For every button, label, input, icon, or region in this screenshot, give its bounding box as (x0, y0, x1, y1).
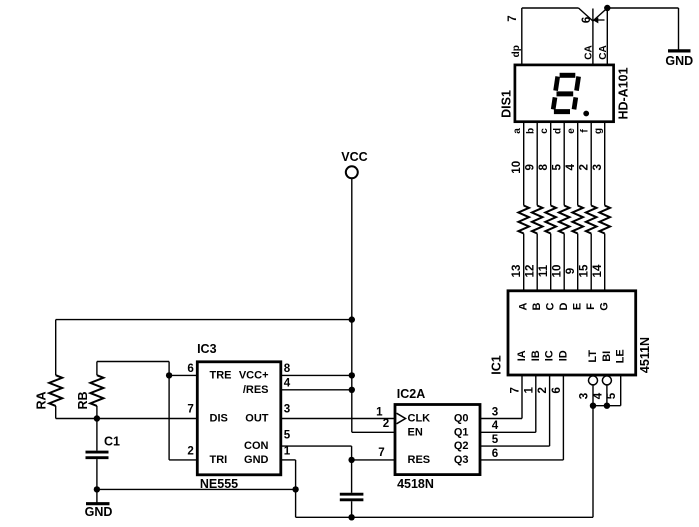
wire /RES pin 4 (281, 389, 352, 391)
svg-text:GND: GND (85, 505, 113, 519)
svg-text:IB: IB (530, 350, 542, 361)
svg-text:4511N: 4511N (638, 337, 652, 373)
resistor segment g (599, 206, 610, 234)
wire CON pin 5 (281, 445, 352, 447)
resistor segment d (559, 206, 570, 234)
wire VCC vertical (351, 179, 353, 433)
wire display segment b to resistor (536, 122, 538, 206)
node VCC-RA junction (349, 316, 355, 322)
wire display segment g to resistor (604, 122, 606, 206)
svg-text:9: 9 (524, 164, 537, 171)
svg-text:e: e (566, 128, 577, 134)
node CA common junction (604, 5, 610, 11)
wire RA to VCC top (56, 319, 352, 321)
svg-text:6: 6 (492, 447, 499, 460)
wire display segment f to resistor (590, 122, 592, 206)
svg-text:7: 7 (378, 446, 384, 459)
svg-text:A: A (518, 302, 530, 310)
svg-text:5: 5 (551, 164, 564, 171)
wire IC1 input 6 riser (562, 375, 564, 460)
svg-text:2: 2 (536, 387, 549, 393)
svg-text:a: a (512, 128, 523, 134)
wire bottom ground bus (296, 516, 593, 518)
wire IC1 input 7 riser (521, 375, 523, 419)
svg-text:9: 9 (564, 267, 577, 274)
wire GND drop vertical (678, 8, 680, 50)
wire resistor to IC1 pin 12 (536, 234, 538, 291)
svg-text:3: 3 (591, 164, 604, 171)
svg-text:ID: ID (557, 350, 569, 361)
svg-text:4: 4 (564, 164, 577, 171)
svg-text:IC3: IC3 (197, 342, 217, 356)
wire top horizontal from dp to CA diagonal (522, 7, 579, 9)
svg-text:4: 4 (284, 377, 291, 390)
svg-text:DIS: DIS (210, 413, 228, 425)
node GND wire junction (292, 486, 298, 492)
wire resistor to IC1 pin 15 (590, 234, 592, 291)
node C1/GND junction (94, 486, 100, 492)
svg-text:Q2: Q2 (454, 440, 469, 452)
svg-text:D: D (558, 302, 570, 310)
resistor segment e (572, 206, 583, 234)
wire IC1 input 2 riser (549, 375, 551, 446)
ground top-right (668, 49, 691, 52)
svg-text:8: 8 (537, 164, 550, 171)
svg-text:CA: CA (583, 45, 594, 59)
svg-text:Q1: Q1 (454, 426, 469, 438)
wire resistor to IC1 pin 11 (550, 234, 552, 291)
wire display segment a to resistor (523, 122, 525, 206)
IC U3 NE555 body (197, 362, 280, 475)
svg-text:IC2A: IC2A (397, 387, 425, 401)
decimal point (583, 111, 589, 117)
svg-text:11: 11 (537, 264, 550, 277)
svg-text:B: B (531, 302, 543, 310)
clock triangle on CLK input (397, 413, 406, 424)
wire Q3 to IC1 (480, 459, 563, 461)
svg-text:d: d (553, 128, 564, 134)
svg-text:10: 10 (551, 265, 564, 278)
wire resistor to IC1 pin 13 (523, 234, 525, 291)
svg-text:CLK: CLK (408, 413, 431, 425)
svg-text:GND: GND (244, 454, 269, 466)
svg-text:6: 6 (580, 16, 593, 23)
IC U2 4518N body (395, 405, 480, 475)
svg-text:c: c (539, 128, 550, 134)
wire BI pin (606, 385, 608, 406)
svg-text:4: 4 (492, 419, 499, 432)
svg-text:4518N: 4518N (397, 477, 434, 491)
wire RA lower lead (55, 406, 57, 419)
resistor RA (49, 375, 62, 406)
svg-text:IC1: IC1 (489, 355, 503, 375)
wire Q1 to IC1 (480, 431, 536, 433)
wire GND pin 1 down (295, 460, 297, 517)
svg-text:TRE: TRE (210, 370, 232, 382)
svg-text:6: 6 (550, 387, 563, 394)
svg-text:14: 14 (591, 264, 604, 277)
svg-text:2: 2 (187, 444, 193, 457)
wire IC1 input 1 riser (535, 375, 537, 432)
svg-text:Q3: Q3 (454, 454, 469, 466)
svg-text:G: G (599, 302, 611, 311)
7-segment display DIS1 body (515, 65, 614, 122)
wire Q2 to IC1 (480, 445, 550, 447)
svg-text:7: 7 (187, 403, 193, 416)
svg-text:RB: RB (76, 391, 90, 409)
wire arrow tick at CA junction (597, 19, 605, 21)
node BI junction (604, 403, 610, 409)
node TRE junction (166, 372, 172, 378)
wire resistor to IC1 pin 10 (563, 234, 565, 291)
inversion bubble LT pin 3 (589, 376, 598, 385)
wire LE pin (620, 375, 622, 406)
svg-text:4: 4 (591, 392, 604, 399)
wire GND pin 1 stub (281, 459, 296, 461)
IC U1 4511N body (508, 291, 636, 375)
svg-text:Q0: Q0 (454, 413, 469, 425)
svg-text:IA: IA (516, 350, 528, 361)
svg-text:GND: GND (665, 54, 693, 68)
svg-text:g: g (593, 128, 604, 134)
svg-text:b: b (526, 128, 537, 134)
svg-text:C: C (545, 302, 557, 310)
resistor segment b (532, 206, 543, 234)
wire RB top lead (96, 362, 98, 376)
wire resistor to IC1 pin 9 (577, 234, 579, 291)
wire LT junction down (592, 406, 594, 518)
svg-text:RES: RES (408, 454, 431, 466)
wire diagonal from junction to CA pins (593, 8, 607, 21)
svg-text:5: 5 (492, 433, 499, 446)
svg-text:C1: C1 (104, 434, 120, 448)
svg-text:2: 2 (578, 164, 591, 170)
wire display segment e to resistor (577, 122, 579, 206)
wire RB lower lead (96, 406, 98, 419)
svg-text:dp: dp (511, 45, 522, 57)
svg-text:IC: IC (544, 350, 556, 361)
VCC terminal circle (346, 166, 358, 178)
svg-text:5: 5 (284, 429, 291, 442)
node LT junction (590, 403, 596, 409)
svg-text:7: 7 (509, 387, 522, 393)
svg-text:VCC: VCC (341, 150, 367, 164)
svg-text:EN: EN (408, 426, 423, 438)
wire junction to GND (607, 7, 678, 9)
wire TRE/TRI vertical (168, 362, 170, 460)
wire CA pin 6 vertical (592, 9, 594, 65)
wire Q0 to IC1 (480, 418, 522, 420)
capacitor C1 (96, 419, 98, 451)
svg-text:1: 1 (522, 387, 535, 394)
ground bottom-left (96, 489, 98, 503)
wire DIS pin long (56, 418, 198, 420)
wire GND horizontal (97, 488, 296, 490)
svg-text:LE: LE (615, 349, 627, 363)
node VCC pin8 junction (349, 372, 355, 378)
svg-text:/RES: /RES (243, 384, 269, 396)
resistor segment c (545, 206, 556, 234)
svg-text:LT: LT (587, 350, 599, 363)
svg-text:5: 5 (605, 392, 618, 399)
digit 8 on display (553, 75, 578, 111)
wire RB top horizontal (97, 361, 169, 363)
svg-text:OUT: OUT (245, 413, 269, 425)
wire LT pin (592, 385, 594, 406)
svg-text:TRI: TRI (210, 454, 228, 466)
wire dp pin vertical (521, 8, 523, 65)
wire display segment c to resistor (550, 122, 552, 206)
svg-text:HD-A101: HD-A101 (617, 67, 631, 119)
resistor RB (90, 375, 103, 406)
wire CON down to RES (351, 446, 353, 460)
wire resistor to IC1 pin 14 (604, 234, 606, 291)
node VCC pin4 junction (349, 387, 355, 393)
svg-text:7: 7 (506, 15, 519, 21)
svg-text:DIS1: DIS1 (499, 90, 513, 118)
wire diagonal into CA pins (579, 8, 593, 21)
svg-text:8: 8 (284, 362, 291, 375)
wire VCC+ pin 8 (281, 374, 352, 376)
svg-text:12: 12 (524, 265, 537, 278)
inversion bubble BI pin 4 (602, 376, 611, 385)
svg-text:3: 3 (578, 392, 591, 399)
wire CA pin 1 vertical (606, 8, 608, 65)
svg-text:6: 6 (187, 362, 194, 375)
svg-text:10: 10 (510, 161, 523, 174)
svg-text:E: E (572, 303, 584, 310)
svg-text:CON: CON (244, 440, 269, 452)
resistor segment f (586, 206, 597, 234)
svg-text:3: 3 (284, 403, 291, 416)
wire TRI pin (169, 459, 197, 461)
node C2 bottom junction (348, 514, 354, 520)
svg-text:VCC+: VCC+ (239, 370, 269, 382)
svg-text:15: 15 (578, 264, 591, 277)
wire RES pin 7 (352, 459, 395, 461)
wire EN to VCC (352, 431, 395, 433)
svg-text:RA: RA (35, 391, 49, 409)
wire LT-BI-LE tie (593, 405, 621, 407)
node CON/RES junction (348, 457, 354, 463)
wire TRE pin (169, 374, 197, 376)
svg-text:CA: CA (598, 45, 609, 59)
capacitor C2 (CON decoupling) (351, 460, 353, 493)
resistor segment a (518, 206, 529, 234)
svg-text:F: F (585, 303, 597, 310)
wire OUT pin 3 to CLK (281, 418, 395, 420)
svg-text:3: 3 (492, 405, 499, 418)
svg-text:13: 13 (510, 264, 523, 277)
node RB/C1/DIS junction (94, 415, 100, 421)
wire display segment d to resistor (563, 122, 565, 206)
wire RA upper lead (55, 320, 57, 376)
svg-text:BI: BI (601, 351, 613, 362)
